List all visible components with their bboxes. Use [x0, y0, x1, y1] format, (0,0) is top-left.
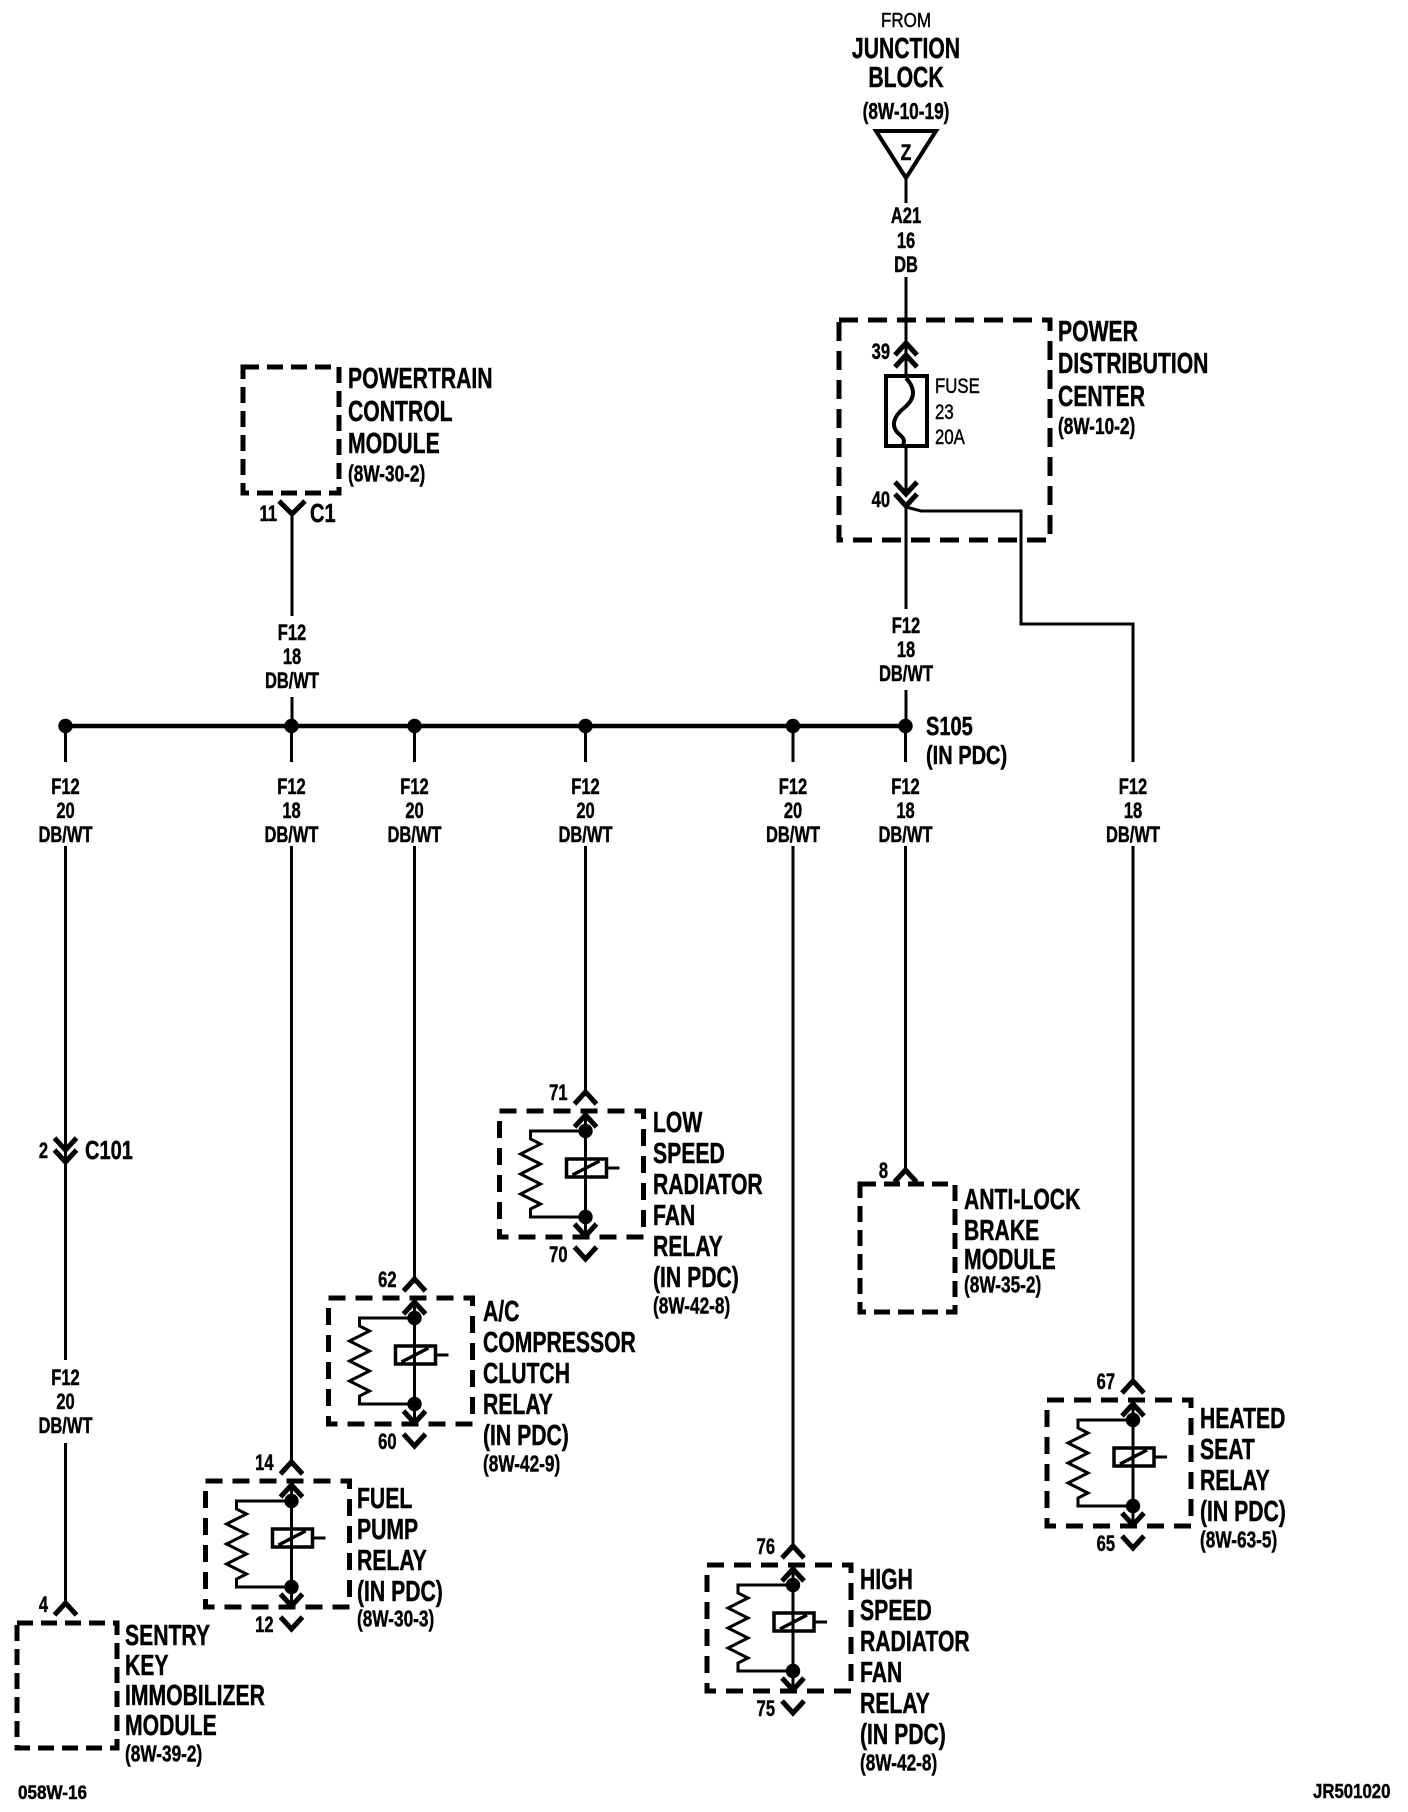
svg-text:BLOCK: BLOCK: [868, 62, 944, 94]
svg-text:RADIATOR: RADIATOR: [653, 1169, 763, 1201]
svg-text:CENTER: CENTER: [1058, 381, 1145, 413]
connector chevron at low speed radiator fan relay box entry: [575, 1115, 597, 1127]
svg-text:DB/WT: DB/WT: [387, 823, 441, 848]
junction dot bottom (high speed radiator fan relay): [786, 1664, 800, 1678]
connector fork pin 60 (A/C compressor clutch relay): [404, 1434, 426, 1446]
relay coil (high speed radiator fan relay): [774, 1613, 814, 1631]
wire PCM label to bus: [291, 697, 294, 726]
wire heated seat feed down to relay: [1132, 846, 1135, 1381]
wire bus to A/C compressor clutch relay pin 62: [413, 846, 416, 1279]
svg-text:RELAY: RELAY: [1200, 1465, 1270, 1497]
wire high speed radiator fan relay internal: [792, 1569, 795, 1690]
junction dot bottom (fuel pump relay): [284, 1580, 298, 1594]
wire stub below bus at x=585.5: [584, 731, 587, 762]
junction dot top (fuel pump relay): [284, 1494, 298, 1508]
svg-text:DB/WT: DB/WT: [766, 823, 820, 848]
svg-text:DB/WT: DB/WT: [558, 823, 612, 848]
wire bus to fuel pump relay pin 14: [290, 846, 293, 1462]
connector pin 40 (PDC) double chevron: [895, 482, 917, 494]
svg-text:COMPRESSOR: COMPRESSOR: [483, 1327, 636, 1359]
svg-text:76: 76: [757, 1535, 776, 1560]
svg-text:MODULE: MODULE: [348, 428, 440, 460]
resistor (coil suppression, A/C compressor clutch relay): [350, 1318, 415, 1404]
svg-text:SEAT: SEAT: [1200, 1434, 1255, 1466]
wire stub below bus at x=414.5: [413, 731, 416, 762]
svg-text:(8W-30-2): (8W-30-2): [348, 462, 425, 487]
svg-text:C1: C1: [310, 498, 336, 527]
junction dot on S105 bus #6: [898, 719, 912, 733]
svg-text:CLUTCH: CLUTCH: [483, 1358, 570, 1390]
wire label to SKIM pin 4: [64, 1443, 67, 1603]
junction dot bottom (low speed radiator fan relay): [578, 1210, 592, 1224]
wire fuel pump relay internal: [290, 1485, 293, 1606]
svg-text:F12: F12: [892, 614, 921, 639]
svg-text:DB/WT: DB/WT: [38, 1414, 92, 1439]
svg-text:F12: F12: [779, 775, 808, 800]
connector chevron at high speed radiator fan relay box exit: [782, 1678, 804, 1690]
svg-text:(IN PDC): (IN PDC): [483, 1420, 569, 1452]
connector fork pin 4 (SKIM): [55, 1603, 77, 1615]
svg-text:RELAY: RELAY: [483, 1389, 553, 1421]
svg-text:(8W-10-2): (8W-10-2): [1058, 415, 1135, 440]
svg-text:PUMP: PUMP: [357, 1514, 418, 1546]
wire pin 40 down to label F12 18: [905, 506, 908, 609]
svg-text:FUSE: FUSE: [935, 375, 980, 398]
svg-text:4: 4: [39, 1593, 48, 1618]
svg-text:39: 39: [872, 340, 891, 365]
svg-text:(8W-63-5): (8W-63-5): [1200, 1528, 1277, 1553]
resistor (coil suppression, heated seat relay): [1068, 1420, 1133, 1506]
svg-text:F12: F12: [51, 775, 80, 800]
svg-text:8: 8: [879, 1159, 888, 1184]
svg-text:F12: F12: [400, 775, 429, 800]
svg-text:71: 71: [549, 1081, 568, 1106]
svg-text:JUNCTION: JUNCTION: [852, 33, 960, 65]
svg-text:(8W-42-9): (8W-42-9): [483, 1452, 560, 1477]
connector fork pin 67 (heated seat relay): [1122, 1381, 1144, 1393]
powertrain control module dashed box: [243, 367, 339, 493]
svg-text:FAN: FAN: [860, 1657, 902, 1689]
svg-text:75: 75: [757, 1697, 776, 1722]
svg-text:(IN PDC): (IN PDC): [860, 1719, 946, 1751]
wire PCM pin 11 down: [291, 514, 294, 616]
connector fork pin 71 (low speed radiator fan relay): [575, 1092, 597, 1104]
svg-text:(8W-42-8): (8W-42-8): [860, 1751, 937, 1776]
svg-text:POWERTRAIN: POWERTRAIN: [348, 363, 493, 395]
connector chevron at heated seat relay box entry: [1122, 1404, 1144, 1416]
connector fork pin 8 (ABM): [895, 1170, 917, 1182]
connector fork pin 75 (high speed radiator fan relay): [782, 1701, 804, 1713]
svg-text:S105: S105: [926, 711, 973, 740]
A/C compressor clutch relay dashed box (IN PDC): [329, 1298, 473, 1424]
resistor (coil suppression, fuel pump relay): [227, 1501, 292, 1587]
svg-text:DB/WT: DB/WT: [879, 662, 933, 687]
off-page connector triangle Z (from junction block): [876, 131, 936, 178]
wire bus to low speed radiator fan relay pin 71: [584, 846, 587, 1092]
svg-text:16: 16: [897, 229, 916, 254]
svg-text:20: 20: [405, 799, 424, 824]
svg-text:058W-16: 058W-16: [18, 1782, 87, 1803]
svg-text:(IN PDC): (IN PDC): [653, 1262, 739, 1294]
svg-text:A21: A21: [891, 204, 921, 229]
svg-text:Z: Z: [901, 141, 912, 165]
wire through fuse element: [905, 378, 908, 446]
svg-text:DISTRIBUTION: DISTRIBUTION: [1058, 348, 1208, 380]
svg-text:65: 65: [1097, 1532, 1116, 1557]
power distribution center dashed box: [839, 320, 1050, 540]
svg-text:62: 62: [378, 1268, 397, 1293]
svg-text:FAN: FAN: [653, 1200, 695, 1232]
connector fork pin 14 (fuel pump relay): [281, 1462, 303, 1474]
connector fork pin 70 (low speed radiator fan relay): [575, 1247, 597, 1259]
wire stub below bus at x=905.5: [904, 731, 907, 762]
svg-text:F12: F12: [571, 775, 600, 800]
connector fork pin 62 (A/C compressor clutch relay): [404, 1279, 426, 1291]
wire stub below bus at x=793: [792, 731, 795, 762]
anti-lock brake module dashed box: [860, 1184, 955, 1312]
svg-text:SENTRY: SENTRY: [125, 1620, 210, 1652]
svg-text:(8W-10-19): (8W-10-19): [863, 100, 950, 125]
svg-text:67: 67: [1097, 1370, 1115, 1395]
svg-text:(8W-35-2): (8W-35-2): [964, 1273, 1041, 1298]
wire low speed radiator fan relay internal: [584, 1115, 587, 1236]
svg-text:20: 20: [784, 799, 803, 824]
svg-text:(8W-30-3): (8W-30-3): [357, 1607, 434, 1632]
fuse 23 20A symbol: [886, 376, 927, 446]
svg-text:20A: 20A: [935, 426, 965, 449]
svg-text:FROM: FROM: [881, 9, 931, 32]
svg-text:DB/WT: DB/WT: [264, 823, 318, 848]
junction dot on S105 bus #1: [58, 719, 72, 733]
junction dot top (heated seat relay): [1126, 1413, 1140, 1427]
junction dot on S105 bus #3: [407, 719, 421, 733]
junction dot top (low speed radiator fan relay): [578, 1124, 592, 1138]
connector fork pin 76 (high speed radiator fan relay): [782, 1546, 804, 1558]
svg-text:BRAKE: BRAKE: [964, 1215, 1039, 1247]
connector chevron at fuel pump relay box exit: [281, 1594, 303, 1606]
svg-text:MODULE: MODULE: [125, 1710, 217, 1742]
junction dot top (high speed radiator fan relay): [786, 1578, 800, 1592]
svg-text:2: 2: [39, 1139, 48, 1164]
svg-text:CONTROL: CONTROL: [348, 396, 453, 428]
connector chevron at fuel pump relay box entry: [281, 1485, 303, 1497]
svg-text:A/C: A/C: [483, 1296, 519, 1328]
low speed radiator fan relay dashed box (IN PDC): [500, 1111, 644, 1237]
svg-text:LOW: LOW: [653, 1107, 702, 1139]
connector chevron at heated seat relay box exit: [1122, 1513, 1144, 1525]
wire A21 into PDC to fuse: [905, 277, 908, 378]
svg-text:KEY: KEY: [125, 1650, 169, 1682]
svg-text:DB: DB: [894, 253, 918, 278]
svg-text:ANTI-LOCK: ANTI-LOCK: [964, 1184, 1081, 1216]
svg-text:(8W-42-8): (8W-42-8): [653, 1294, 730, 1319]
svg-text:RADIATOR: RADIATOR: [860, 1626, 970, 1658]
svg-text:F12: F12: [891, 775, 920, 800]
wire fuse to pin 40: [905, 446, 908, 494]
svg-text:(IN PDC): (IN PDC): [926, 740, 1007, 769]
svg-text:RELAY: RELAY: [860, 1688, 930, 1720]
wire bus to C101: [64, 846, 67, 1360]
svg-text:DB/WT: DB/WT: [878, 823, 932, 848]
heated seat relay dashed box (IN PDC): [1047, 1400, 1191, 1526]
resistor (coil suppression, high speed radiator fan relay): [728, 1585, 793, 1671]
junction dot bottom (A/C compressor clutch relay): [407, 1397, 421, 1411]
wire from triangle Z to label A21: [905, 178, 908, 203]
resistor (coil suppression, low speed radiator fan relay): [521, 1131, 586, 1217]
connector fork pin 65 (heated seat relay): [1122, 1536, 1144, 1548]
connector fork pin 12 (fuel pump relay): [281, 1617, 303, 1629]
svg-text:18: 18: [896, 799, 915, 824]
junction dot bottom (heated seat relay): [1126, 1499, 1140, 1513]
wire branch from pin 40 to heated seat feed: [906, 507, 1133, 762]
relay coil (heated seat relay): [1114, 1448, 1154, 1466]
svg-text:F12: F12: [51, 1366, 80, 1391]
junction dot on S105 bus #5: [786, 719, 800, 733]
connector pin 39 (PDC) double chevron: [895, 343, 917, 355]
relay coil (low speed radiator fan relay): [567, 1159, 607, 1177]
svg-text:18: 18: [1124, 799, 1143, 824]
svg-text:C101: C101: [85, 1135, 133, 1164]
svg-text:(IN PDC): (IN PDC): [357, 1576, 443, 1608]
wire stub below bus at x=291.5: [290, 731, 293, 762]
splice bus wire S105: [66, 724, 906, 729]
junction dot on S105 bus #2: [284, 719, 298, 733]
svg-text:HIGH: HIGH: [860, 1564, 913, 1596]
svg-text:(8W-39-2): (8W-39-2): [125, 1742, 202, 1767]
svg-text:F12: F12: [278, 621, 307, 646]
connector C1 pin 11 fork: [279, 501, 305, 514]
svg-text:HEATED: HEATED: [1200, 1403, 1285, 1435]
wire heated seat relay internal: [1132, 1404, 1135, 1525]
svg-text:POWER: POWER: [1058, 316, 1138, 348]
wire bus to high speed radiator fan relay pin 76: [792, 846, 795, 1546]
svg-text:18: 18: [282, 799, 301, 824]
relay coil (A/C compressor clutch relay): [396, 1346, 436, 1364]
wire bus to ABM pin 8: [904, 846, 907, 1170]
fuel pump relay dashed box (IN PDC): [206, 1481, 350, 1607]
svg-text:FUEL: FUEL: [357, 1483, 412, 1515]
sentry key immobilizer module dashed box: [17, 1623, 117, 1748]
connector chevron at low speed radiator fan relay box exit: [575, 1224, 597, 1236]
svg-text:JR501020: JR501020: [1313, 1780, 1390, 1803]
svg-text:14: 14: [255, 1451, 274, 1476]
svg-text:MODULE: MODULE: [964, 1244, 1056, 1276]
wire stub below bus at x=65.5: [64, 731, 67, 762]
svg-text:18: 18: [897, 638, 916, 663]
connector chevron at high speed radiator fan relay box entry: [782, 1569, 804, 1581]
svg-text:20: 20: [56, 1390, 75, 1415]
svg-text:12: 12: [255, 1613, 274, 1638]
svg-text:RELAY: RELAY: [653, 1231, 723, 1263]
svg-text:20: 20: [56, 799, 75, 824]
svg-text:11: 11: [260, 502, 278, 527]
junction dot top (A/C compressor clutch relay): [407, 1311, 421, 1325]
wire bus to heated seat relay pin 67: [1132, 846, 1135, 1381]
svg-text:SPEED: SPEED: [653, 1138, 725, 1170]
svg-text:20: 20: [576, 799, 595, 824]
svg-text:DB/WT: DB/WT: [1106, 823, 1160, 848]
svg-text:18: 18: [283, 645, 302, 670]
svg-text:40: 40: [872, 488, 891, 513]
svg-text:SPEED: SPEED: [860, 1595, 932, 1627]
svg-text:(IN PDC): (IN PDC): [1200, 1496, 1286, 1528]
svg-text:RELAY: RELAY: [357, 1545, 427, 1577]
svg-text:IMMOBILIZER: IMMOBILIZER: [125, 1680, 265, 1712]
high speed radiator fan relay dashed box (IN PDC): [707, 1565, 851, 1691]
svg-text:F12: F12: [1119, 775, 1148, 800]
svg-text:DB/WT: DB/WT: [265, 669, 319, 694]
svg-text:F12: F12: [277, 775, 306, 800]
connector C101 pin 2 double chevron: [55, 1138, 77, 1150]
connector chevron at A/C compressor clutch relay box entry: [404, 1302, 426, 1314]
junction dot on S105 bus #4: [578, 719, 592, 733]
wire label to splice S105: [905, 690, 908, 726]
svg-text:60: 60: [378, 1430, 397, 1455]
relay coil (fuel pump relay): [273, 1529, 313, 1547]
connector chevron at A/C compressor clutch relay box exit: [404, 1411, 426, 1423]
svg-text:70: 70: [549, 1243, 568, 1268]
wire A/C compressor clutch relay internal: [413, 1302, 416, 1423]
svg-text:DB/WT: DB/WT: [38, 823, 92, 848]
svg-text:23: 23: [935, 401, 954, 424]
